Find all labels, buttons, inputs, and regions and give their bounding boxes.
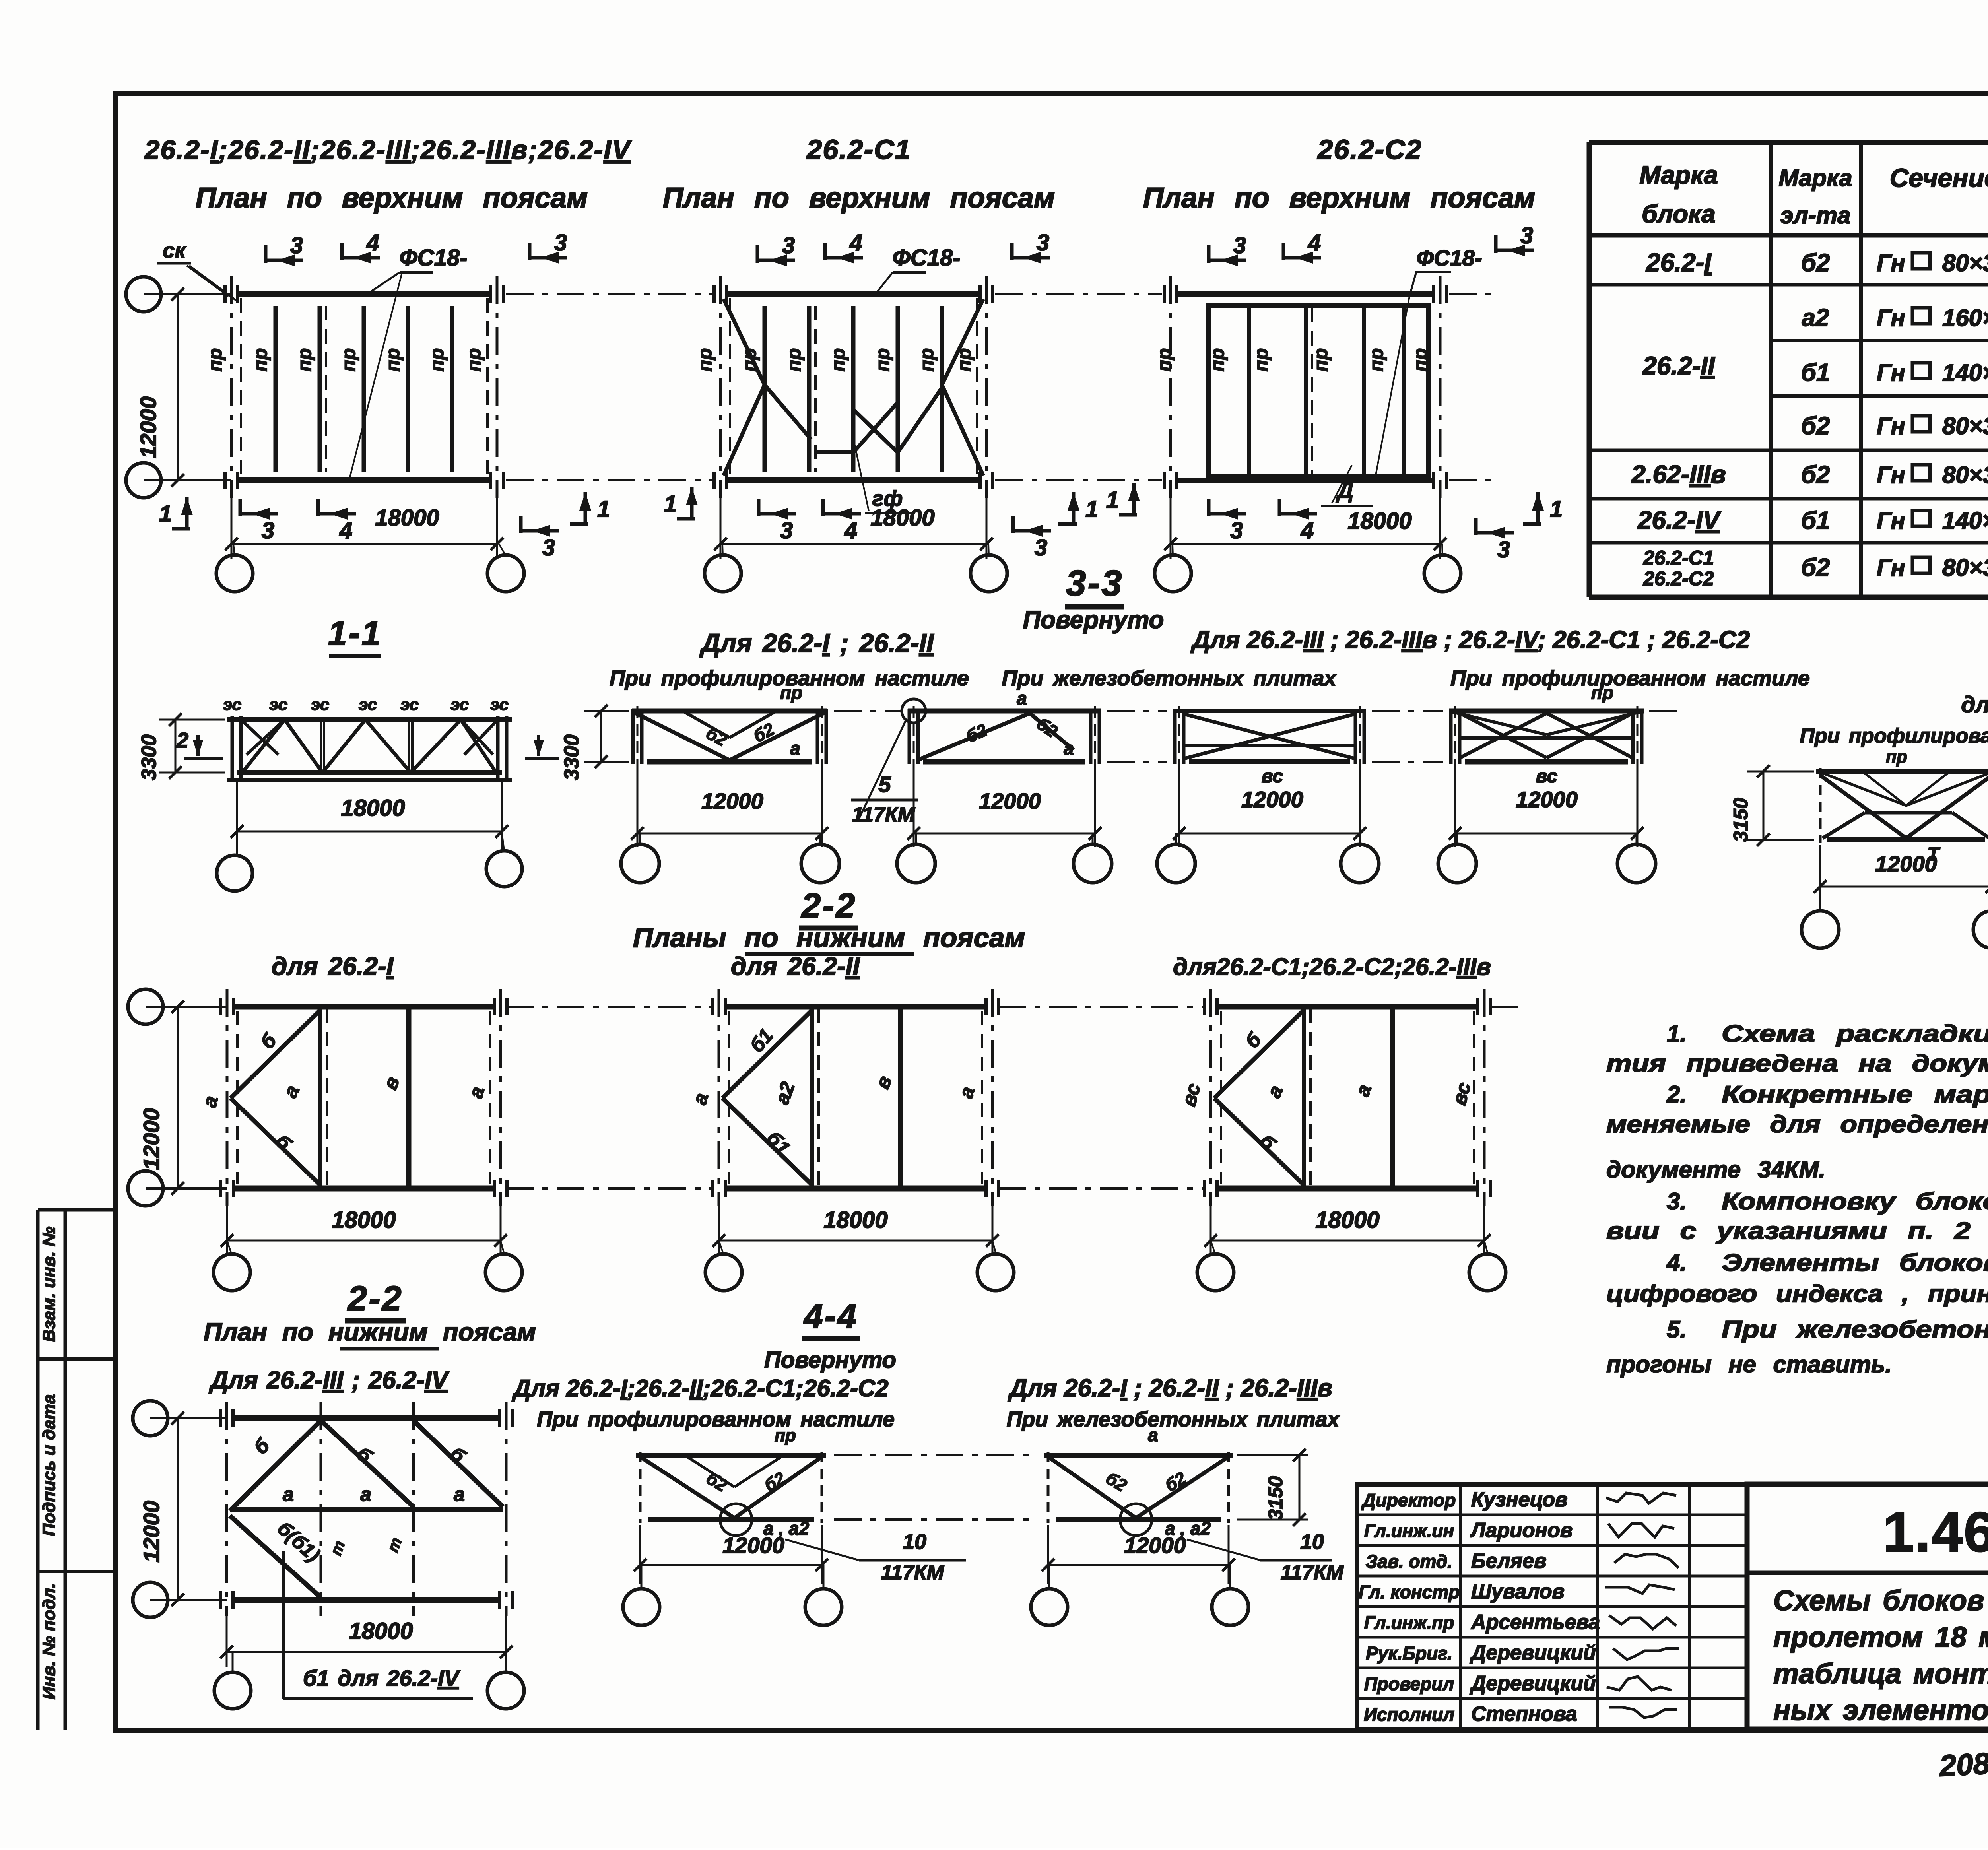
svg-text:Гн: Гн: [1877, 507, 1905, 534]
svg-text:4.: 4.: [1666, 1249, 1687, 1276]
svg-text:б2: б2: [1801, 461, 1830, 489]
svg-text:12000: 12000: [1241, 787, 1303, 812]
svg-text:а: а: [360, 1483, 371, 1505]
svg-text:26.2-С2: 26.2-С2: [1643, 567, 1714, 590]
svg-text:блока: блока: [1642, 200, 1716, 228]
svg-text:б1: б1: [1801, 507, 1830, 534]
svg-text:4: 4: [1301, 518, 1314, 544]
svg-text:Гн: Гн: [1877, 305, 1905, 331]
svg-text:117КМ: 117КМ: [881, 1561, 945, 1584]
svg-text:пр: пр: [1154, 348, 1175, 372]
svg-text:Кузнецов: Кузнецов: [1471, 1488, 1567, 1511]
svg-text:меняемые для определенного: меняемые для определенного выпуска , при…: [1606, 1111, 1988, 1138]
svg-text:Для 26.2-I ; 26.2-II: Для 26.2-I ; 26.2-II: [699, 628, 934, 658]
svg-text:Гн: Гн: [1877, 359, 1905, 386]
svg-text:документе 34КМ.: документе 34КМ.: [1606, 1156, 1825, 1183]
svg-text:эс: эс: [223, 695, 241, 714]
svg-text:26.2-I;26.2-II;26.2-III;26.2-I: 26.2-I;26.2-II;26.2-III;26.2-IIIв;26.2-I…: [144, 135, 633, 165]
svg-text:Компоновку блоков выполнять: Компоновку блоков выполнять в соответст-: [1722, 1188, 1988, 1215]
svg-text:пр: пр: [294, 348, 315, 372]
svg-text:эс: эс: [269, 695, 287, 714]
svg-text:3300: 3300: [560, 734, 583, 780]
svg-text:пр: пр: [1251, 348, 1272, 372]
svg-text:Шувалов: Шувалов: [1471, 1580, 1565, 1603]
svg-text:Степнова: Степнова: [1471, 1702, 1577, 1726]
svg-text:ФС18-: ФС18-: [1416, 245, 1482, 270]
svg-text:а: а: [454, 1483, 465, 1505]
svg-text:1: 1: [1550, 496, 1563, 522]
svg-text:Гл. констр: Гл. констр: [1359, 1582, 1460, 1602]
svg-text:пр: пр: [427, 348, 448, 372]
svg-text:3: 3: [1233, 233, 1246, 258]
svg-text:80×3: 80×3: [1942, 413, 1988, 439]
svg-text:таблица монтаж-: таблица монтаж-: [1773, 1658, 1988, 1690]
svg-text:эс: эс: [359, 695, 377, 714]
svg-text:117КМ: 117КМ: [852, 803, 916, 826]
svg-text:б1 для 26.2-IV: б1 для 26.2-IV: [303, 1666, 461, 1691]
svg-text:160×4: 160×4: [1942, 305, 1988, 331]
svg-text:12000: 12000: [139, 1108, 164, 1170]
svg-text:ск: ск: [163, 239, 186, 262]
svg-text:Взам. инв. №: Взам. инв. №: [39, 1227, 59, 1342]
svg-text:пр: пр: [775, 1426, 796, 1445]
svg-text:Гл.инж.ин: Гл.инж.ин: [1364, 1520, 1454, 1541]
svg-text:18000: 18000: [1347, 508, 1411, 534]
svg-text:План по нижним поясам: План по нижним поясам: [204, 1318, 536, 1346]
svg-text:При профилированном настиле: При профилированном настиле: [1800, 724, 1988, 747]
svg-text:для 26.2-III ; 26.2-IV: для 26.2-III ; 26.2-IV: [1961, 692, 1988, 718]
svg-text:ФС18-: ФС18-: [893, 245, 961, 271]
svg-text:вс: вс: [1536, 766, 1558, 787]
svg-text:Зав. отд.: Зав. отд.: [1366, 1551, 1452, 1572]
svg-text:26.2-I: 26.2-I: [1646, 248, 1712, 277]
svg-text:4: 4: [844, 518, 857, 544]
svg-text:3: 3: [1497, 537, 1510, 563]
svg-text:прогоны не ставить.: прогоны не ставить.: [1606, 1351, 1892, 1378]
svg-text:вс: вс: [1262, 766, 1283, 787]
svg-text:эс: эс: [490, 695, 509, 714]
svg-text:пр: пр: [1591, 682, 1613, 703]
svg-text:26.2-С1: 26.2-С1: [1643, 547, 1714, 569]
svg-text:пр: пр: [828, 348, 849, 372]
svg-text:б2: б2: [1801, 249, 1830, 277]
svg-text:пр: пр: [695, 348, 716, 372]
svg-text:Гн: Гн: [1877, 250, 1905, 276]
svg-text:2.: 2.: [1666, 1081, 1687, 1108]
svg-text:4: 4: [849, 230, 862, 256]
svg-text:18000: 18000: [1315, 1207, 1379, 1233]
svg-text:80×3: 80×3: [1942, 462, 1988, 488]
svg-text:Исполнил: Исполнил: [1364, 1704, 1454, 1725]
svg-text:для26.2-С1;26.2-С2;26.2-IIIв: для26.2-С1;26.2-С2;26.2-IIIв: [1173, 953, 1491, 980]
svg-text:б2: б2: [1801, 554, 1830, 581]
svg-text:пр: пр: [338, 348, 359, 372]
svg-text:140×4: 140×4: [1942, 507, 1988, 534]
svg-text:20861: 20861: [1938, 1745, 1988, 1783]
svg-text:18000: 18000: [341, 795, 405, 821]
svg-text:3150: 3150: [1730, 798, 1752, 842]
svg-text:26.2-С2: 26.2-С2: [1316, 134, 1422, 165]
svg-text:а: а: [790, 738, 800, 759]
svg-text:пр: пр: [872, 348, 893, 372]
svg-text:26.2-С1: 26.2-С1: [806, 134, 911, 165]
svg-text:ФС18-: ФС18-: [400, 245, 468, 271]
svg-text:Марка: Марка: [1778, 165, 1852, 191]
svg-text:4-4: 4-4: [803, 1297, 858, 1336]
svg-text:3: 3: [782, 233, 795, 258]
svg-text:2-2: 2-2: [347, 1279, 403, 1318]
svg-text:5.: 5.: [1667, 1316, 1687, 1343]
svg-text:Для 26.2-I;26.2-II;26.2-С1;26.: Для 26.2-I;26.2-II;26.2-С1;26.2-С2: [511, 1375, 888, 1402]
svg-text:Рук.Бриг.: Рук.Бриг.: [1366, 1643, 1452, 1664]
svg-text:3300: 3300: [138, 734, 161, 780]
svg-text:1: 1: [664, 491, 677, 517]
svg-text:12000: 12000: [1875, 851, 1937, 876]
svg-text:Схемы блоков 26.2: Схемы блоков 26.2: [1773, 1585, 1988, 1617]
svg-text:3: 3: [1520, 223, 1533, 248]
svg-text:пр: пр: [916, 348, 938, 372]
svg-text:3: 3: [554, 230, 567, 256]
svg-text:При железобетонных плитах: При железобетонных плитах: [1002, 666, 1337, 690]
svg-text:тия приведена на документ: тия приведена на документе 33 КМ.: [1606, 1050, 1988, 1077]
svg-text:18000: 18000: [332, 1207, 396, 1233]
svg-text:б2: б2: [1801, 412, 1830, 440]
svg-text:3150: 3150: [1264, 1476, 1287, 1520]
svg-text:Арсентьева: Арсентьева: [1470, 1611, 1600, 1634]
svg-text:5: 5: [878, 772, 891, 797]
svg-text:18000: 18000: [375, 505, 439, 531]
svg-text:80×3: 80×3: [1942, 250, 1988, 276]
svg-text:2: 2: [176, 728, 188, 752]
svg-text:ных элементов: ных элементов: [1773, 1695, 1988, 1726]
svg-text:3: 3: [1037, 230, 1049, 256]
svg-text:б1: б1: [1801, 359, 1830, 386]
svg-text:Схема раскладки монтажных: Схема раскладки монтажных блоков покры-: [1722, 1020, 1988, 1047]
svg-text:Для 26.2-III ; 26.2-IIIв ; 26.: Для 26.2-III ; 26.2-IIIв ; 26.2-IV; 26.2…: [1190, 626, 1750, 654]
svg-text:3: 3: [262, 518, 274, 544]
svg-text:Деревицкий: Деревицкий: [1470, 1641, 1596, 1664]
svg-text:пр: пр: [250, 348, 271, 372]
svg-text:эс: эс: [311, 695, 329, 714]
svg-text:Ларионов: Ларионов: [1470, 1519, 1573, 1542]
svg-text:пр: пр: [784, 348, 805, 372]
svg-text:18000: 18000: [349, 1618, 413, 1644]
svg-text:пр: пр: [382, 348, 404, 372]
svg-text:3-3: 3-3: [1066, 563, 1124, 604]
svg-text:а: а: [1148, 1425, 1158, 1445]
svg-text:План по верхним поясам: План по верхним поясам: [1143, 182, 1535, 214]
svg-text:1.460.3-19-38КМ: 1.460.3-19-38КМ: [1883, 1501, 1988, 1564]
svg-text:10: 10: [903, 1530, 926, 1554]
svg-text:для 26.2-II: для 26.2-II: [731, 952, 860, 980]
svg-text:пр: пр: [780, 682, 802, 703]
svg-text:пр: пр: [1310, 348, 1332, 372]
svg-text:26.2-II: 26.2-II: [1642, 351, 1715, 380]
svg-text:26.2-IV: 26.2-IV: [1637, 506, 1722, 534]
svg-text:10: 10: [1300, 1530, 1324, 1554]
svg-text:Повернуто: Повернуто: [764, 1347, 896, 1373]
svg-text:Инв. № подл.: Инв. № подл.: [39, 1583, 59, 1699]
svg-text:Директор: Директор: [1361, 1490, 1456, 1510]
svg-text:12000: 12000: [139, 1501, 164, 1563]
svg-text:Подпись и дата: Подпись и дата: [39, 1394, 59, 1536]
svg-text:12000: 12000: [1516, 787, 1578, 812]
svg-text:эс: эс: [400, 695, 419, 714]
svg-text:3: 3: [780, 518, 793, 544]
svg-text:а2: а2: [1802, 304, 1829, 332]
svg-text:1: 1: [159, 501, 172, 527]
svg-text:пр: пр: [205, 348, 226, 372]
svg-text:140×4: 140×4: [1942, 359, 1988, 386]
svg-text:Для 26.2-I ; 26.2-II ; 26.2-II: Для 26.2-I ; 26.2-II ; 26.2-IIIв: [1008, 1374, 1332, 1402]
svg-text:12000: 12000: [1124, 1533, 1186, 1558]
svg-text:Гл.инж.пр: Гл.инж.пр: [1364, 1612, 1454, 1633]
svg-text:а: а: [1064, 738, 1074, 759]
svg-text:Повернуто: Повернуто: [1023, 606, 1164, 634]
svg-text:4: 4: [1308, 230, 1321, 256]
svg-text:18000: 18000: [870, 505, 934, 531]
svg-text:План по верхним поясам: План по верхним поясам: [196, 182, 588, 214]
svg-text:Элементы блоков, обозначенны: Элементы блоков, обозначенные буквами бе…: [1722, 1249, 1988, 1276]
svg-text:При профилированном настиле: При профилированном настиле: [537, 1407, 895, 1431]
svg-text:При профилированном настиле: При профилированном настиле: [1450, 666, 1810, 690]
svg-text:12000: 12000: [701, 788, 763, 813]
svg-text:Марка: Марка: [1639, 161, 1718, 189]
svg-text:цифрового индекса , принимат: цифрового индекса , принимать по конкрет…: [1606, 1280, 1988, 1307]
svg-text:а: а: [1017, 688, 1027, 709]
svg-text:3: 3: [1230, 518, 1243, 544]
svg-text:пр: пр: [464, 348, 485, 372]
svg-text:Гн: Гн: [1877, 554, 1905, 581]
svg-text:Сечение: Сечение: [1890, 163, 1988, 192]
svg-text:Гн: Гн: [1877, 413, 1905, 439]
svg-text:пр: пр: [1410, 348, 1431, 372]
svg-text:1.: 1.: [1667, 1020, 1687, 1047]
svg-text:При железобетонных плитах: При железобетонных плитах: [1007, 1407, 1340, 1431]
svg-text:Гн: Гн: [1877, 462, 1905, 488]
svg-text:пролетом 18 м и: пролетом 18 м и: [1773, 1621, 1988, 1653]
svg-text:1: 1: [1085, 496, 1098, 522]
svg-text:12000: 12000: [979, 788, 1041, 813]
svg-text:вии с указаниями п. 2 поя: вии с указаниями п. 2 пояснительной запи…: [1606, 1217, 1988, 1244]
svg-text:1: 1: [1106, 487, 1119, 513]
svg-text:1: 1: [597, 496, 610, 522]
svg-text:3.: 3.: [1667, 1188, 1687, 1215]
svg-text:3: 3: [290, 233, 303, 258]
svg-text:для 26.2-I: для 26.2-I: [272, 952, 394, 980]
svg-text:2.62-IIIв: 2.62-IIIв: [1631, 460, 1726, 489]
svg-text:2-2: 2-2: [800, 886, 856, 925]
svg-text:эл-та: эл-та: [1780, 202, 1850, 229]
svg-text:пр: пр: [1207, 348, 1228, 372]
svg-text:а: а: [283, 1483, 294, 1505]
svg-text:Планы по нижним поясам: Планы по нижним поясам: [633, 922, 1025, 953]
svg-text:Деревицкий: Деревицкий: [1470, 1672, 1596, 1695]
svg-text:Проверил: Проверил: [1364, 1673, 1454, 1694]
svg-text:Конкретные марки монтажны: Конкретные марки монтажных блоков, при-: [1722, 1081, 1988, 1108]
svg-text:12000: 12000: [136, 396, 161, 458]
svg-text:1-1: 1-1: [328, 614, 382, 652]
svg-text:эс: эс: [450, 695, 469, 714]
svg-text:4: 4: [366, 230, 379, 256]
svg-text:пр: пр: [1886, 747, 1907, 767]
svg-text:3: 3: [542, 535, 555, 561]
svg-text:При железобетонных плитах: При железобетонных плитах в покрытии: [1722, 1316, 1988, 1343]
svg-text:Беляев: Беляев: [1471, 1549, 1547, 1572]
svg-text:18000: 18000: [823, 1207, 887, 1233]
svg-text:3: 3: [1035, 535, 1047, 561]
svg-text:Для 26.2-III ; 26.2-IV: Для 26.2-III ; 26.2-IV: [208, 1367, 450, 1394]
svg-text:4: 4: [339, 518, 352, 544]
svg-text:12000: 12000: [722, 1533, 784, 1558]
svg-text:План по верхним поясам: План по верхним поясам: [663, 182, 1055, 214]
svg-text:80×3: 80×3: [1942, 554, 1988, 581]
svg-text:пр: пр: [1366, 348, 1387, 372]
svg-text:117КМ: 117КМ: [1281, 1561, 1344, 1584]
